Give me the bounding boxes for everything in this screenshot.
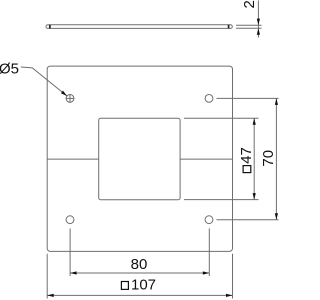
svg-text:80: 80 xyxy=(131,256,148,273)
side view plate (top) xyxy=(46,25,232,29)
svg-text:70: 70 xyxy=(260,150,277,167)
extension line 80 left xyxy=(69,228,71,276)
cover plate outline xyxy=(47,66,232,251)
label square 47 xyxy=(238,147,255,172)
dimension line square107 xyxy=(47,294,232,296)
label 2 xyxy=(241,0,258,8)
extension line square47 top xyxy=(184,117,259,119)
hole bottom-right xyxy=(205,216,213,224)
central square cutout xyxy=(99,118,180,199)
extension line square107 right xyxy=(232,254,234,299)
arrow 80 left xyxy=(70,271,77,274)
hole top-left crosshair vertical xyxy=(69,94,71,103)
arrow 70 bottom xyxy=(275,213,278,220)
dimension line 80 xyxy=(70,272,209,274)
extension line 70 top xyxy=(217,97,279,99)
thickness extension line bottom xyxy=(236,27,262,29)
extension line square107 left xyxy=(46,254,48,299)
extension line square47 bottom xyxy=(184,199,259,201)
side view left end tick xyxy=(49,25,51,29)
dimension line 70 xyxy=(275,98,277,219)
arrow square107 right xyxy=(226,294,233,297)
svg-text:107: 107 xyxy=(131,276,156,293)
svg-text:Ø5: Ø5 xyxy=(0,61,19,78)
leader line diameter 5 xyxy=(21,67,67,96)
arrow square107 left xyxy=(47,294,54,297)
arrow square47 top xyxy=(253,118,256,125)
hole top-left xyxy=(66,95,74,103)
arrow 80 right xyxy=(203,271,210,274)
dimension line square47 xyxy=(253,118,255,199)
hole top-left crosshair horizontal xyxy=(66,97,75,99)
split line left half xyxy=(47,158,98,160)
arrow square47 bottom xyxy=(253,193,256,200)
arrow dimension 2 lower xyxy=(257,28,260,35)
hole top-right xyxy=(205,95,213,103)
svg-text:47: 47 xyxy=(238,147,255,164)
split line right half xyxy=(180,158,232,160)
label square 107 xyxy=(121,276,156,293)
svg-text:2: 2 xyxy=(241,0,258,8)
extension line 70 bottom xyxy=(217,219,279,221)
thickness extension line top xyxy=(236,24,262,26)
arrow 70 top xyxy=(275,98,278,105)
side view right end tick xyxy=(228,25,230,29)
hole bottom-left xyxy=(66,216,74,224)
arrow dimension 2 upper xyxy=(257,19,260,26)
dimension line 2 xyxy=(257,1,259,38)
leader arrowhead xyxy=(61,91,67,96)
label 70 xyxy=(260,150,277,167)
extension line 80 right xyxy=(208,228,210,276)
